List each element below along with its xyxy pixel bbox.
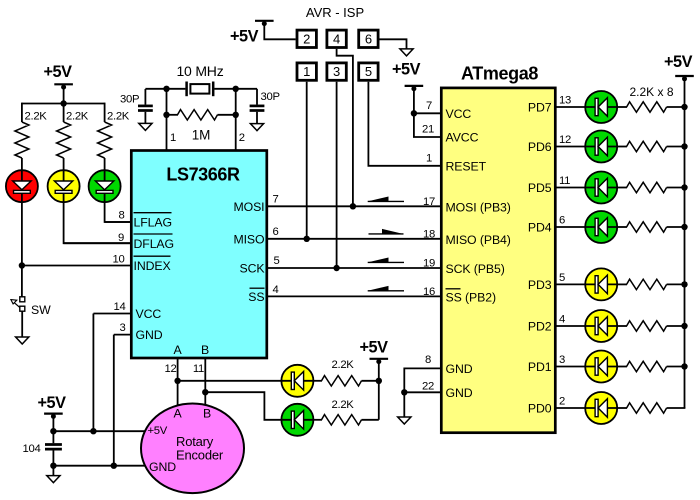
svg-text:Encoder: Encoder — [176, 448, 224, 463]
svg-text:PD1: PD1 — [528, 360, 552, 374]
pin INDEX label — [134, 256, 171, 273]
svg-text:22: 22 — [422, 380, 434, 392]
svg-text:PD3: PD3 — [528, 278, 552, 292]
svg-text:2.2K: 2.2K — [66, 111, 89, 123]
svg-text:2.2K: 2.2K — [332, 359, 355, 371]
wire MISO net — [268, 238, 440, 240]
svg-text:5: 5 — [274, 255, 280, 267]
power +5V (ATmega VCC) — [392, 61, 423, 92]
resistor 2.2K (yellow LED) — [57, 111, 89, 159]
pin DFLAG label — [134, 234, 175, 251]
node SCK/ISP3 — [333, 265, 339, 271]
svg-text:104: 104 — [23, 443, 41, 455]
svg-text:13: 13 — [559, 95, 571, 107]
wire switch to ground — [21, 311, 23, 337]
svg-text:9: 9 — [118, 232, 124, 244]
svg-text:21: 21 — [422, 124, 434, 136]
svg-text:SW: SW — [31, 303, 51, 317]
node A junction — [174, 378, 180, 384]
wire VCC line down — [92, 314, 94, 432]
wire box 5 to RESET — [368, 82, 440, 166]
svg-text:ATmega8: ATmega8 — [461, 64, 538, 84]
svg-text:INDEX: INDEX — [134, 259, 171, 273]
node rail junction — [60, 100, 66, 106]
svg-text:GND: GND — [446, 386, 473, 400]
rotary encoder body — [141, 404, 244, 494]
resistor 2.2K (green LED) — [98, 111, 130, 159]
svg-text:+5V: +5V — [360, 339, 389, 357]
svg-text:PD6: PD6 — [528, 140, 552, 154]
wire rail drop left — [21, 103, 23, 122]
resistor 2.2K (red LED) — [15, 111, 47, 159]
svg-text:GND: GND — [149, 460, 176, 474]
PD2 row: wire, LED, resistor — [555, 310, 688, 342]
wire resistor to yellow LED — [63, 158, 65, 171]
svg-text:VCC: VCC — [446, 107, 472, 121]
wire +5V to box 2 — [264, 21, 295, 40]
wire yellow LED down — [64, 202, 130, 243]
node GND line junction — [111, 463, 117, 469]
wire left node down to pin 1 — [166, 89, 168, 150]
svg-text:AVCC: AVCC — [446, 131, 479, 145]
connector pin 3 — [327, 63, 346, 80]
ground (ISP pin 6) — [400, 49, 413, 56]
wire resistor to green LED — [104, 158, 106, 171]
svg-text:GND: GND — [136, 328, 163, 342]
wire +5V rail to encoder — [53, 430, 145, 432]
svg-text:B: B — [203, 407, 211, 421]
node 1M left — [163, 112, 169, 118]
transistor U2 ATmega8 body — [441, 88, 555, 433]
svg-text:3: 3 — [559, 354, 565, 366]
node B junction — [202, 389, 208, 395]
wire B to green LED — [205, 392, 281, 420]
svg-text:4: 4 — [273, 284, 279, 296]
wire GND pin 8 — [404, 368, 441, 392]
wire +5V stem down — [378, 359, 380, 420]
svg-text:3: 3 — [333, 64, 340, 79]
svg-text:1: 1 — [303, 64, 310, 79]
svg-text:MOSI (PB3): MOSI (PB3) — [446, 201, 511, 215]
wire rail horizontal — [22, 103, 105, 105]
wire crystal node to right cap — [236, 88, 257, 90]
svg-text:SCK: SCK — [240, 262, 266, 276]
direction arrow MISO — [369, 229, 404, 234]
resistor 1M — [167, 110, 236, 143]
svg-text:1: 1 — [426, 152, 432, 164]
node VCC line junction — [90, 428, 96, 434]
svg-text:RESET: RESET — [446, 160, 487, 174]
resistor 2.2K (channel A) — [313, 359, 378, 386]
svg-text:PD7: PD7 — [528, 101, 552, 115]
svg-text:2.2K: 2.2K — [332, 399, 355, 411]
svg-text:GND: GND — [446, 362, 473, 376]
node INDEX junction — [19, 262, 25, 268]
svg-text:LS7366R: LS7366R — [166, 165, 240, 185]
svg-text:+5V: +5V — [664, 53, 693, 71]
node GND rail left — [50, 463, 56, 469]
PD1 row: wire, LED, resistor — [555, 351, 688, 383]
svg-text:+5V: +5V — [230, 28, 259, 46]
svg-text:VCC: VCC — [136, 307, 162, 321]
svg-text:10: 10 — [113, 253, 125, 265]
PD0 row: wire, LED, resistor — [555, 392, 685, 424]
node 1M right — [233, 112, 239, 118]
svg-text:3: 3 — [120, 322, 126, 334]
LED yellow (channel A) — [281, 365, 313, 397]
wire box 3 to SCK net — [336, 82, 338, 268]
svg-text:2.2K: 2.2K — [107, 111, 130, 123]
svg-text:12: 12 — [559, 134, 571, 146]
svg-text:A: A — [173, 343, 182, 357]
LED red — [6, 170, 38, 202]
wire box 1 to MISO net — [306, 82, 308, 239]
pin SS (PB2) label — [446, 289, 496, 305]
capacitor 30P (right) — [250, 89, 280, 124]
svg-text:19: 19 — [423, 258, 435, 270]
svg-text:AVR - ISP: AVR - ISP — [306, 5, 364, 20]
svg-text:2: 2 — [303, 31, 310, 46]
svg-text:PD0: PD0 — [528, 402, 552, 416]
node MISO/ISP1 — [304, 236, 310, 242]
svg-text:B: B — [201, 343, 209, 357]
ground (switch) — [16, 337, 29, 344]
connector pin 5 — [359, 63, 378, 80]
connector pin 1 — [297, 63, 316, 80]
wire GND rail to encoder — [53, 465, 146, 467]
PD5 row: wire, LED, resistor — [555, 172, 688, 204]
LED green (channel B) — [281, 404, 313, 436]
wire box 4 to MOSI net — [337, 49, 353, 206]
wire resistor to red LED — [21, 158, 23, 171]
ground (left 30P) — [139, 123, 152, 130]
PD7 row: wire, LED, resistor — [555, 91, 688, 123]
wire GND pin 22 — [404, 391, 441, 393]
svg-text:+5V: +5V — [148, 425, 168, 437]
wire A to encoder — [177, 381, 179, 406]
wire SS net — [268, 295, 440, 297]
svg-text:6: 6 — [365, 31, 372, 46]
wire INDEX to chip — [22, 265, 130, 267]
connector pin 2 — [297, 30, 316, 47]
ground (ATmega) — [398, 417, 411, 424]
PD4 row: wire, LED, resistor — [555, 211, 688, 243]
wire right node down to pin 2 — [235, 89, 237, 150]
crystal 10 MHz — [167, 63, 236, 96]
wire +5V to VCC/AVCC — [414, 86, 440, 137]
svg-text:18: 18 — [423, 229, 435, 241]
node +5V junction — [376, 378, 382, 384]
svg-text:8: 8 — [119, 210, 125, 222]
wire green LED down — [105, 202, 130, 222]
wire +5V stem — [52, 414, 54, 444]
svg-text:30P: 30P — [120, 94, 139, 106]
power +5V (bottom left) — [38, 394, 67, 419]
PD6 row: wire, LED, resistor — [555, 131, 688, 163]
capacitor 30P (left) — [120, 89, 153, 123]
power +5V (ISP pin 2) — [230, 21, 274, 46]
connector pin 6 — [359, 30, 378, 47]
wire pin 14 VCC — [93, 313, 131, 315]
svg-text:10 MHz: 10 MHz — [176, 63, 223, 79]
svg-text:4: 4 — [559, 314, 565, 326]
svg-text:2.2K x 8: 2.2K x 8 — [630, 85, 674, 99]
wire GND rail drop — [52, 466, 54, 476]
svg-text:PD4: PD4 — [528, 221, 552, 235]
node +5V rail — [50, 428, 56, 434]
direction arrow SS — [368, 286, 404, 291]
svg-text:16: 16 — [423, 286, 435, 298]
svg-text:2.2K: 2.2K — [25, 111, 48, 123]
wire rail drop mid — [63, 104, 65, 123]
wire box 6 to ground — [380, 39, 407, 49]
svg-text:A: A — [173, 407, 182, 421]
svg-text:6: 6 — [559, 215, 565, 227]
wire pin 12 A stub — [177, 358, 179, 381]
ground (right 30P) — [250, 124, 263, 131]
wire cap to crystal node — [145, 88, 166, 90]
svg-text:11: 11 — [559, 175, 570, 187]
svg-text:+5V: +5V — [392, 61, 421, 79]
svg-text:2: 2 — [239, 132, 245, 144]
pin LFLAG label — [134, 213, 172, 230]
node MOSI/ISP4 — [350, 203, 356, 209]
ground (bottom left) — [47, 476, 60, 483]
svg-text:5: 5 — [365, 64, 372, 79]
wire VCC pin — [414, 112, 440, 114]
wire GND down — [403, 392, 405, 417]
node crystal right — [233, 86, 239, 92]
svg-text:SCK (PB5): SCK (PB5) — [446, 262, 505, 276]
svg-text:MOSI: MOSI — [233, 200, 264, 214]
wire A to yellow LED — [178, 380, 282, 382]
svg-text:14: 14 — [114, 301, 126, 313]
svg-text:PD2: PD2 — [528, 320, 552, 334]
wire pin 3 GND — [114, 334, 131, 336]
wire pin 9 DFLAG — [64, 242, 131, 244]
svg-text:4: 4 — [333, 31, 340, 46]
LED green — [89, 170, 121, 202]
svg-text:SS: SS — [248, 290, 264, 304]
pin SS label — [248, 288, 264, 304]
node GND join — [401, 389, 407, 395]
PD3 row: wire, LED, resistor — [555, 268, 688, 300]
svg-text:8: 8 — [425, 354, 431, 366]
switch SW — [11, 297, 51, 317]
direction arrow SCK — [368, 258, 404, 263]
capacitor 104 — [23, 443, 62, 466]
resistor 2.2K (channel B) — [313, 399, 378, 425]
svg-text:LFLAG: LFLAG — [134, 216, 172, 230]
wire B to encoder — [204, 392, 206, 406]
svg-text:2: 2 — [559, 396, 565, 408]
svg-text:+5V: +5V — [44, 63, 73, 81]
wire GND line down — [113, 335, 115, 466]
svg-text:7: 7 — [273, 194, 279, 206]
power +5V (encoder pullups) — [360, 339, 389, 365]
power +5V (LED bus) — [664, 53, 694, 81]
wire pin 8 LFLAG — [105, 221, 131, 223]
connector pin 4 — [327, 30, 346, 47]
svg-text:5: 5 — [559, 272, 565, 284]
svg-text:DFLAG: DFLAG — [134, 237, 175, 251]
svg-text:+5V: +5V — [38, 394, 67, 412]
svg-text:6: 6 — [273, 226, 279, 238]
svg-text:MISO (PB4): MISO (PB4) — [446, 233, 511, 247]
wire +5V bus — [684, 76, 686, 408]
node crystal left — [163, 86, 169, 92]
svg-text:11: 11 — [193, 363, 204, 375]
wire pin 11 B stub — [204, 358, 206, 392]
direction arrow MOSI — [368, 197, 404, 202]
wire rail drop right — [104, 103, 106, 122]
svg-text:1: 1 — [170, 132, 176, 144]
wire +5V stem to rail — [63, 84, 65, 103]
power +5V (top left) — [44, 63, 73, 90]
svg-text:30P: 30P — [261, 91, 280, 103]
svg-text:7: 7 — [426, 100, 432, 112]
op-amp U1 LS7366R body — [131, 151, 266, 359]
svg-text:PD5: PD5 — [528, 181, 552, 195]
wire red LED down to switch — [21, 202, 23, 297]
wire SCK net — [268, 267, 440, 269]
svg-text:17: 17 — [423, 196, 435, 208]
LED yellow — [48, 170, 80, 202]
wire MOSI net — [268, 205, 440, 207]
node VCC junction — [411, 110, 417, 116]
svg-text:SS (PB2): SS (PB2) — [446, 291, 496, 305]
svg-text:1M: 1M — [192, 128, 211, 143]
svg-text:MISO: MISO — [233, 232, 264, 246]
svg-text:12: 12 — [165, 363, 177, 375]
